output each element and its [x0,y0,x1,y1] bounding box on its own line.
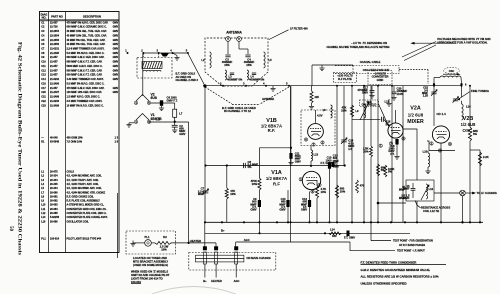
svg-text:680 MMF G.M.V. F.T. CER. CAP.: 680 MMF G.M.V. F.T. CER. CAP. [67,61,103,64]
svg-text:OSCILLATOR COIL: OSCILLATOR COIL [67,220,90,223]
lamp PL1 [145,235,152,246]
svg-text:L10: L10 [41,204,46,207]
svg-text:40 MMF 15% CBL. TUB. CER. CAP.: 40 MMF 15% CBL. TUB. CER. CAP. [67,34,107,37]
svg-text:HEATER: HEATER [190,239,201,243]
svg-text:5%: 5% [473,132,477,136]
note F.T. [361,260,447,264]
resistor 470 [356,180,365,193]
svg-text:GMV: GMV [113,39,119,42]
svg-text:3-5 MMF TRIMMER CAP. ASSY.: 3-5 MMF TRIMMER CAP. ASSY. [67,100,103,103]
svg-text:C11: C11 [41,65,46,68]
svg-text:±10%: ±10% [397,92,404,96]
svg-text:GMV: GMV [113,30,119,33]
capacitor C4 [239,42,255,67]
svg-text:1.25: 1.25 [423,94,429,98]
callout RF plate [334,73,357,83]
svg-text:4.5, 41/44 TRAP / ANT. COIL: 4.5, 41/44 TRAP / ANT. COIL [67,183,100,186]
svg-text:GMV: GMV [362,91,368,95]
svg-text:40 MMF 15% CBL. TUB. CER. CAP.: 40 MMF 15% CBL. TUB. CER. CAP. [67,30,107,33]
wire rail x378 [377,86,379,223]
resistance note [415,201,450,213]
svg-text:B+: B+ [221,229,225,233]
svg-text:GMV: GMV [301,208,307,212]
capacitor C21 [399,185,406,200]
svg-text:ON MAIN CHASSIS: ON MAIN CHASSIS [246,256,271,260]
svg-text:I.F FILTER 466: I.F FILTER 466 [290,26,308,30]
svg-text:APPROXIMATE FOR A VHF ISOLATIO: APPROXIMATE FOR A VHF ISOLATION. [437,41,488,45]
wire node5 to junction [188,53,205,86]
wire rail x352 [351,86,353,223]
svg-text:1/2 6BK7A: 1/2 6BK7A [266,176,287,181]
svg-text:10%: 10% [161,248,167,252]
svg-text:MIXER: MIXER [407,119,424,125]
antenna label lower [262,98,274,101]
svg-text:L9: L9 [355,109,359,113]
label V2B [461,116,476,133]
svg-text:L13: L13 [314,153,319,157]
svg-text:L16: L16 [466,105,471,109]
svg-text:GMV: GMV [250,208,256,212]
IF transformer box [406,180,434,201]
svg-text:330: 330 [332,234,337,238]
svg-text:C20: C20 [41,91,46,94]
svg-text:20-685: 20-685 [50,212,58,215]
svg-text:~ 2.5 TO -7V. DEPENDING ON: ~ 2.5 TO -7V. DEPENDING ON [351,41,387,45]
svg-text:COAXIAL CABLE: COAXIAL CABLE [360,61,381,64]
svg-text:5%: 5% [248,165,252,169]
svg-text:R.F: R.F [273,182,280,187]
resistor 4.7K [315,180,326,222]
terminal post B+ [203,246,207,264]
capacitor C19 ft [320,156,334,167]
faint arc artifact [152,287,236,294]
coax dashed run [335,66,428,85]
svg-text:L12: L12 [429,187,434,191]
svg-text:15%: 15% [224,63,230,67]
svg-text:L11: L11 [41,208,46,211]
svg-text:20-334: 20-334 [50,175,58,178]
terminal post AGC [234,246,238,264]
svg-text:GMV F.T.: GMV F.T. [167,98,178,102]
coil L5 [264,52,273,68]
svg-text:5%: 5% [388,170,392,174]
svg-text:5.6 MMF 5% N.P.O. CER. DISC C.: 5.6 MMF 5% N.P.O. CER. DISC C. [67,52,105,55]
svg-text:1/2 6U8: 1/2 6U8 [408,112,424,117]
svg-text:OSC: OSC [449,70,455,73]
svg-text:22-2656: 22-2656 [50,43,60,46]
resistor R4 47K [341,105,353,117]
svg-text:DESCRIPTION: DESCRIPTION [83,15,101,19]
svg-text:L5: L5 [269,58,273,62]
leader lines voltages note [402,42,436,61]
page number 50 [8,226,13,232]
svg-text:40-048: 40-048 [50,137,58,140]
svg-text:40 MMF 5% CBL. TUB. CER. CAP.: 40 MMF 5% CBL. TUB. CER. CAP. [67,39,106,42]
svg-text:L16: L16 [41,220,46,223]
label V1B [261,118,282,133]
dashed box channel 2-3 coils [137,58,172,79]
label V1A [266,170,287,187]
svg-text:MTG BRACKET ASSEMBLY: MTG BRACKET ASSEMBLY [133,259,168,263]
svg-text:GMV: GMV [113,34,119,37]
svg-text:F.T.: F.T. [390,152,394,156]
svg-text:460MMF 5%: 460MMF 5% [249,77,265,81]
tube V1B shield dashed [301,110,335,146]
svg-text:22-2654: 22-2654 [50,30,60,33]
wire heater bus [149,118,189,123]
voltage range note [326,41,389,49]
svg-text:100-614: 100-614 [50,237,60,240]
svg-text:100-619: 100-619 [131,280,141,284]
svg-text:R.F. GRID CHOKE COIL: R.F. GRID CHOKE COIL [67,195,95,198]
svg-text:PART NO: PART NO [51,15,62,19]
trap L3 C5 [225,70,243,81]
osc coil callout [444,67,460,73]
svg-text:22K: 22K [315,96,320,99]
svg-text:C22: C22 [41,100,46,103]
svg-text:COILS: COILS [67,171,75,174]
svg-text:L12: L12 [41,212,46,215]
tube V2B electrodes [436,132,447,140]
wire rail x392 [391,86,393,223]
svg-text:PL1: PL1 [41,237,46,240]
label V2A [407,106,424,126]
ground at node 4 [173,53,180,60]
wire heater run [171,243,216,247]
svg-text:F.T. GMV: F.T. GMV [344,236,355,240]
svg-text:R.F PLATE: R.F PLATE [338,77,352,81]
coil segment between nodes 3-4 [161,53,170,57]
ground stub y65 [319,65,324,71]
svg-text:10 MMF 5% N.P.O. CER. DISC C.: 10 MMF 5% N.P.O. CER. DISC C. [67,104,104,107]
resistor 1.5K [363,86,373,223]
tab on shield callout [360,100,389,126]
capacitor C13 ft [328,154,339,223]
svg-text:GMV: GMV [179,132,185,136]
svg-text:ANTENNA: ANTENNA [262,98,274,101]
svg-text:100 MMF 10% CER. DISC CAP.: 100 MMF 10% CER. DISC CAP. [67,91,103,94]
coil L13a below V1B [311,146,319,166]
svg-text:1.5: 1.5 [348,147,352,151]
svg-text:20-682: 20-682 [50,200,58,203]
resistor 100K 5% [384,165,395,203]
capacitor C22 trimmer [422,84,437,126]
svg-text:21-657: 21-657 [50,21,58,24]
svg-text:CONVERTER GRID COIL 1/MC AS.: CONVERTER GRID COIL 1/MC AS. [67,208,107,211]
svg-text:1 3: 1 3 [114,136,118,140]
svg-text:460MMF 5%: 460MMF 5% [227,77,243,81]
tube V1B pins [304,138,324,147]
svg-text:GMV: GMV [113,78,119,81]
svg-text:R2: R2 [163,235,167,239]
svg-text:MMF: MMF [403,187,409,191]
svg-text:-2 VOLTS: -2 VOLTS [374,71,386,75]
resistor 680 [335,185,345,198]
pilot dashed box [126,231,176,254]
svg-text:4.5, 41/44 MC/45MC HTR. CHOKE: 4.5, 41/44 MC/45MC HTR. CHOKE [67,191,106,194]
svg-text:ANTENNA: ANTENNA [226,31,242,35]
capacitor C3 [222,42,233,67]
svg-text:21-657: 21-657 [50,69,58,72]
svg-text:C13: C13 [41,74,46,77]
svg-text:OSC FEED FOR UHF: OSC FEED FOR UHF [363,68,390,72]
junction dot mixer [377,202,406,205]
svg-text:TO I.F CHASSIS: TO I.F CHASSIS [477,191,497,195]
callout converter grid [368,71,392,85]
svg-text:600 MMF G.M.V. F.T. CER. CAP.: 600 MMF G.M.V. F.T. CER. CAP. [67,69,103,72]
hatched coil L6 [142,62,162,72]
svg-text:NO.: NO. [42,16,47,20]
resistor R2 [151,235,171,252]
svg-text:20-681: 20-681 [50,195,58,198]
svg-text:G.M.V. DENOTES GUARANTEED MINI: G.M.V. DENOTES GUARANTEED MINIMUM VALUE. [361,268,431,272]
terminal post heater [214,246,218,264]
tube V1A electrodes [306,178,317,186]
svg-text:5.6 MMF 5% N.P.O. CER. DISC C.: 5.6 MMF 5% N.P.O. CER. DISC C. [67,82,105,85]
svg-text:PL1: PL1 [145,235,150,239]
coil L13 osc [434,73,462,84]
svg-text:TEST POINT - I.F. INPUT: TEST POINT - I.F. INPUT [397,250,425,253]
svg-text:21-657: 21-657 [50,74,58,77]
wire grid line y166 [204,164,345,167]
label heater [190,239,201,243]
svg-text:21-657: 21-657 [50,87,58,90]
svg-text:1.5 MMF N.P.O. CER. DISC C.: 1.5 MMF N.P.O. CER. DISC C. [67,96,101,99]
svg-text:C10: C10 [41,61,46,64]
svg-text:CONVERTER: CONVERTER [372,75,389,79]
tube V1B electrodes [310,110,323,136]
node terminals 1-5 [125,49,189,58]
svg-text:ON SHIELD: ON SHIELD [362,103,377,107]
note when used on Z [131,270,170,284]
svg-text:4.5V: 4.5V [317,114,323,118]
note unless [361,281,407,285]
svg-text:TEST POINT - FOR OBSERVATION: TEST POINT - FOR OBSERVATION [393,240,433,243]
svg-text:2.2-8 MMF TRIMMER CAP. ASSY.: 2.2-8 MMF TRIMMER CAP. ASSY. [67,48,105,51]
resistor 2.2K [470,150,489,222]
inductor L12 [421,184,434,200]
terminal strip bar [196,255,244,262]
svg-text:22-2654: 22-2654 [50,34,60,37]
svg-text:10%: 10% [230,192,236,196]
capacitor C18 ft [388,139,399,159]
svg-text:F.T. DENOTES FEED THRU CONDENS: F.T. DENOTES FEED THRU CONDENSER [361,260,418,264]
tube V1 heater [134,113,162,124]
tube V2A electrodes [391,116,401,135]
svg-text:2.2K: 2.2K [483,155,489,159]
svg-text:COIL L12 7Ω: COIL L12 7Ω [423,209,440,213]
svg-text:L14: L14 [330,228,335,232]
svg-text:20-684: 20-684 [50,208,58,211]
junction dots osc [433,83,467,86]
svg-text:C16: C16 [41,82,46,85]
svg-text:FINE TUNING: FINE TUNING [471,89,489,93]
svg-text:L10: L10 [423,150,428,154]
resistor 47K grid [225,166,236,223]
svg-text:GMV: GMV [113,61,119,64]
test point IF leader [350,242,425,253]
wire V1B cathode branch [259,86,292,178]
svg-text:20-334: 20-334 [50,187,58,190]
svg-text:21-6232: 21-6232 [50,78,60,81]
svg-text:GMV: GMV [113,87,119,90]
svg-text:GRID: GRID [377,78,384,82]
osc feed dashed box [353,66,399,74]
svg-text:21-657: 21-657 [50,65,58,68]
fine tuning trimmer [453,84,462,104]
wire rail x205 [204,86,206,222]
inductor L14 330 [329,228,341,239]
wire left vertical [117,193,119,258]
antenna bus wire [203,85,463,87]
wire jack to bus [461,196,463,224]
coil L2 [201,52,211,68]
tube V2 heater [134,93,157,105]
svg-text:GMV: GMV [113,56,119,59]
svg-text:GMV: GMV [113,48,119,51]
inductor L9 slug [355,102,369,120]
capacitor C12 ft [301,192,311,223]
resistor 68K osc [468,85,478,223]
trimmer C7 [198,187,209,196]
AGC line [236,233,350,242]
wire rail x364 [363,86,365,223]
svg-text:OMIT R2 AND CHANGE PILOT: OMIT R2 AND CHANGE PILOT [131,273,170,277]
mixer plate wire [396,110,418,222]
svg-text:A-5733/45 INCL MIXER GRID CL.: A-5733/45 INCL MIXER GRID CL. [67,204,105,207]
tube V1A envelope [302,171,320,189]
svg-text:21-726: 21-726 [50,26,58,29]
svg-text:C21: C21 [41,96,46,99]
dashed trapezoid ch 4-12 [205,87,289,105]
svg-text:(USED ON SOME MODELS): (USED ON SOME MODELS) [133,263,168,267]
capacitor C16 series [352,117,391,127]
capacitor ft on B+ line [344,231,355,240]
capacitor C6 feedthru [151,96,178,111]
note GMV [361,268,431,272]
svg-text:21-2498: 21-2498 [50,96,60,99]
svg-text:CHANNEL NO.FINE TUNER,AND BULL: CHANNEL NO.FINE TUNER,AND BULLS EYE SETT… [326,46,389,49]
note located on tuner [133,256,168,267]
antenna label [226,31,242,35]
svg-text:B+: B+ [203,279,207,283]
label B.T. grid coils ch 2-3 [176,73,199,83]
svg-text:GMV: GMV [295,159,301,163]
svg-text:4-30 MMF TRIMMER CAP. ASSY.: 4-30 MMF TRIMMER CAP. ASSY. [67,78,105,81]
svg-text:21-657: 21-657 [50,61,58,64]
svg-text:5%: 5% [381,168,385,172]
svg-text:4.5, 41/44 TRAP / ANT. COIL: 4.5, 41/44 TRAP / ANT. COIL [67,179,100,182]
svg-text:600 MMF G.M.V. CERAMIC DISC C.: 600 MMF G.M.V. CERAMIC DISC C. [67,26,108,29]
svg-text:C23: C23 [41,104,46,107]
svg-text:50: 50 [8,226,13,232]
svg-text:7.5: 7.5 [156,118,160,122]
svg-text:GMV: GMV [113,43,119,46]
svg-text:GMV: GMV [113,65,119,68]
tube V2A envelope [388,123,403,138]
svg-text:OF R F BAND PASSES: OF R F BAND PASSES [399,244,425,247]
fine tuning label [458,89,489,100]
svg-text:CONVERTER PLATE COIL 1/MC A.: CONVERTER PLATE COIL 1/MC A. [67,212,107,215]
svg-text:MMF: MMF [198,192,204,196]
resistor 68K [377,164,386,176]
svg-text:AGC: AGC [244,238,250,242]
inductor L10 [423,150,431,174]
wire B+ drop [204,222,206,246]
labels B+ heater AGC [203,279,239,283]
svg-text:GMV: GMV [113,74,119,77]
svg-text:10%: 10% [321,190,327,194]
antenna dashed enclosure [205,38,268,86]
trap L4 C5A [247,70,265,81]
svg-text:MMF: MMF [403,196,409,200]
tube V1A pins [299,177,321,193]
svg-text:IN CHANNEL 4 TO 12: IN CHANNEL 4 TO 12 [224,109,251,113]
svg-text:CD 1.4: CD 1.4 [436,112,446,116]
svg-text:15%: 15% [246,63,252,67]
svg-text:R.F.: R.F. [268,128,276,133]
terminal strip dashed box [189,253,276,271]
tube V2A pins [379,137,405,148]
svg-text:HEATER: HEATER [211,279,222,283]
svg-text:7.5 OHM 10%: 7.5 OHM 10% [67,141,83,144]
inductor L8 [323,86,333,118]
voltages measured note [437,37,491,44]
label B.T. grid coils ch 4-12 [222,106,256,113]
svg-text:470: 470 [360,184,365,188]
svg-text:21-2497: 21-2497 [50,91,60,94]
resistor R3 22K [309,86,319,109]
test point RF leader [371,222,433,247]
resistor 470K [251,178,261,200]
svg-text:20-335: 20-335 [50,183,58,186]
svg-text:GMV: GMV [113,91,119,94]
arrow TO IF [466,191,497,195]
tube V2B pins [430,142,452,153]
ground under bus [270,86,275,91]
svg-text:GMV: GMV [113,52,119,55]
svg-text:10%: 10% [252,182,258,186]
svg-text:GMV: GMV [113,69,119,72]
B+ line [205,222,410,234]
svg-text:F.T. GMV: F.T. GMV [320,161,331,165]
svg-text:WHEN USED ON 'Z' MODELS: WHEN USED ON 'Z' MODELS [131,270,168,274]
terminal leads [205,264,236,278]
capacitor C23 plates [403,183,415,200]
capacitor C17 [357,85,374,98]
tube V2B shield box [427,141,455,151]
svg-text:UNLESS OTHERWISE SPECIFIED: UNLESS OTHERWISE SPECIFIED [361,281,407,285]
svg-text:5-62258: 5-62258 [50,216,60,219]
inductor L11 [385,99,392,106]
figure caption (rotated) [17,42,23,255]
tube V1B envelope [308,124,324,140]
svg-text:600 MMF G.M.V. F.T. CER. CAP.: 600 MMF G.M.V. F.T. CER. CAP. [67,74,103,77]
arrow to voltage note [412,42,457,44]
wire rail x337 [336,86,338,223]
svg-text:21-6233: 21-6233 [50,100,60,103]
note resistors [361,275,440,279]
svg-text:10%: 10% [340,189,346,193]
svg-text:V2A: V2A [410,106,421,112]
svg-text:LOCATED ON TUNER AND: LOCATED ON TUNER AND [133,256,167,260]
svg-text:22-2656: 22-2656 [50,39,60,42]
svg-text:400 OHM 10%: 400 OHM 10% [67,137,84,140]
svg-text:C17: C17 [41,87,46,90]
node labels 2-5 on bus [220,81,288,85]
capacitor C2 [172,122,186,136]
svg-text:5600 MMF G.M.V. CER. DISC C.: 5600 MMF G.M.V. CER. DISC C. [67,65,103,68]
